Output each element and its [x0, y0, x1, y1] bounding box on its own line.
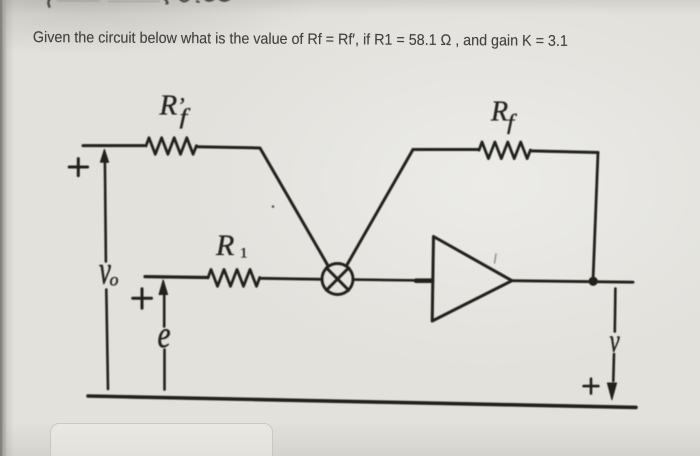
wire top-left to summer diagonal [197, 147, 329, 267]
svg-text:v: v [610, 324, 621, 360]
resistor R1 [208, 269, 260, 286]
arrow vo up [105, 161, 108, 389]
plus sign v [584, 379, 599, 394]
wire R1 to summer [260, 278, 322, 279]
svg-text:e: e [158, 315, 171, 356]
svg-text:o: o [110, 270, 119, 290]
wire top-left horizontal [83, 144, 144, 147]
multiplier summer [322, 264, 353, 295]
wire right vertical [593, 153, 598, 281]
svg-text:R: R [490, 97, 508, 128]
arrow e up [163, 293, 166, 390]
op-amp [432, 237, 512, 322]
junction node dot [589, 277, 598, 286]
plus sign e [133, 289, 152, 309]
wire top-right horizontal left part [413, 148, 479, 151]
wire summer diagonal up right [346, 150, 413, 267]
resistor Rf [479, 142, 530, 159]
dust speck [272, 205, 275, 208]
wire top-right horizontal right part [531, 151, 599, 153]
pencil mark [495, 254, 497, 263]
ground rail bottom [88, 396, 636, 407]
wire R1 input left part [145, 275, 208, 279]
svg-text:1: 1 [240, 246, 248, 262]
wire summer to op-amp [353, 280, 433, 281]
wire op-amp output [512, 281, 633, 283]
resistor R'f [146, 138, 196, 155]
svg-text:R: R [159, 90, 178, 122]
arrow v down [613, 289, 615, 382]
svg-text:f: f [507, 111, 518, 135]
cropped text fragment top edge [48, 0, 231, 8]
svg-text:f: f [180, 105, 191, 129]
svg-text:R: R [215, 229, 234, 262]
plus sign vo [69, 159, 87, 176]
